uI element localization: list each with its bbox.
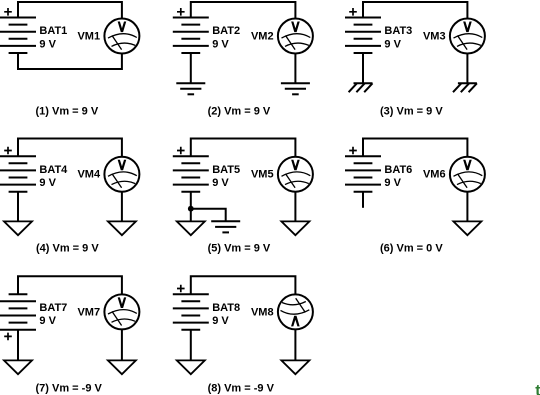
ground (earth) at BAT2 <box>176 83 205 94</box>
svg-text:(6) Vm = 0 V: (6) Vm = 0 V <box>380 242 443 254</box>
voltmeter VM2 <box>278 19 313 54</box>
svg-text:VM6: VM6 <box>423 169 446 181</box>
svg-text:BAT3: BAT3 <box>384 25 412 37</box>
ground (signal) at BAT5 <box>177 221 205 235</box>
battery BAT6 plus terminal <box>349 147 357 155</box>
svg-text:9 V: 9 V <box>39 38 56 50</box>
svg-text:BAT5: BAT5 <box>212 164 240 176</box>
battery BAT1 <box>0 18 36 54</box>
battery BAT2 plus terminal <box>177 8 185 16</box>
svg-text:9 V: 9 V <box>39 177 56 189</box>
svg-text:9 V: 9 V <box>212 315 229 327</box>
wire VM5 to ground <box>294 192 296 222</box>
wire VM7 to ground <box>121 329 123 360</box>
wire junction to earth ground branch <box>191 209 226 222</box>
wire VM8 to ground <box>294 329 296 360</box>
voltmeter VM3 <box>450 19 485 54</box>
svg-text:BAT2: BAT2 <box>212 25 240 37</box>
wire BAT5 to ground through junction <box>190 192 192 222</box>
svg-text:VM5: VM5 <box>251 169 274 181</box>
wire BAT7 to ground <box>17 330 19 361</box>
ground (chassis) at BAT3 <box>349 83 373 92</box>
voltmeter VM7 <box>104 294 139 329</box>
wire BAT3 to ground <box>362 53 364 83</box>
battery BAT7 <box>0 294 36 330</box>
svg-text:VM3: VM3 <box>423 30 446 42</box>
battery BAT5 plus terminal <box>177 147 185 155</box>
wire BAT6 floating stub <box>362 192 364 208</box>
svg-text:(3) Vm = 9 V: (3) Vm = 9 V <box>380 106 443 118</box>
voltmeter VM8 <box>278 294 313 329</box>
battery BAT6 <box>345 156 381 192</box>
svg-text:VM2: VM2 <box>251 30 274 42</box>
battery BAT5 <box>173 156 209 192</box>
svg-text:(8) Vm = -9 V: (8) Vm = -9 V <box>208 383 275 395</box>
svg-text:VM7: VM7 <box>77 306 100 318</box>
battery BAT4 <box>0 156 36 192</box>
ground (chassis) at VM3 <box>453 83 477 92</box>
ground (signal) at VM8 <box>281 360 309 374</box>
wire VM2 to ground <box>294 54 296 84</box>
wire top BAT1 to VM1 <box>18 2 122 19</box>
wire top BAT4 to VM4 <box>18 139 122 157</box>
ground (signal) at VM4 <box>108 221 136 235</box>
battery BAT7 plus terminal <box>4 333 12 341</box>
voltmeter VM6 <box>450 157 485 192</box>
svg-text:t: t <box>535 383 540 395</box>
svg-text:(5) Vm = 9 V: (5) Vm = 9 V <box>208 242 271 254</box>
wire VM6 to ground <box>466 192 468 222</box>
voltmeter VM1 <box>104 19 139 54</box>
wire VM4 to ground <box>121 192 123 222</box>
svg-text:(4) Vm = 9 V: (4) Vm = 9 V <box>36 242 99 254</box>
svg-text:9 V: 9 V <box>212 38 229 50</box>
battery BAT1 plus terminal <box>4 8 12 16</box>
ground (signal) at VM7 <box>108 360 136 374</box>
svg-text:9 V: 9 V <box>39 315 56 327</box>
svg-text:(1) Vm = 9 V: (1) Vm = 9 V <box>36 106 99 118</box>
wire top BAT7 to VM7 <box>18 276 122 294</box>
svg-text:VM4: VM4 <box>77 169 101 181</box>
wire BAT2 to ground <box>190 53 192 83</box>
junction node at BAT5 <box>188 206 194 212</box>
ground (earth) at VM2 <box>281 83 310 94</box>
ground (signal) at BAT8 <box>177 360 205 374</box>
wire BAT4 to ground <box>17 192 19 222</box>
svg-text:9 V: 9 V <box>384 38 401 50</box>
wire top BAT8 to VM8 <box>191 276 296 294</box>
svg-text:9 V: 9 V <box>212 177 229 189</box>
svg-text:BAT4: BAT4 <box>39 164 68 176</box>
battery BAT3 plus terminal <box>349 8 357 16</box>
voltmeter VM5 <box>278 157 313 192</box>
svg-text:VM1: VM1 <box>77 30 100 42</box>
ground (earth) at BAT5 branch <box>211 221 240 232</box>
wire top BAT3 to VM3 <box>363 2 467 19</box>
svg-text:VM8: VM8 <box>251 306 274 318</box>
svg-text:BAT6: BAT6 <box>384 164 412 176</box>
wire top BAT5 to VM5 <box>191 139 296 157</box>
svg-text:BAT8: BAT8 <box>212 302 240 314</box>
ground (signal) at VM6 <box>453 221 481 235</box>
ground (signal) at BAT4 <box>4 221 32 235</box>
battery BAT8 <box>173 294 209 330</box>
ground (signal) at VM5 <box>281 221 309 235</box>
battery BAT8 plus terminal <box>177 285 185 293</box>
svg-text:BAT1: BAT1 <box>39 25 67 37</box>
svg-text:9 V: 9 V <box>384 177 401 189</box>
wire top BAT2 to VM2 <box>191 2 296 19</box>
svg-text:(2) Vm = 9 V: (2) Vm = 9 V <box>208 106 271 118</box>
battery BAT3 <box>345 18 381 54</box>
wire bottom VM1 to BAT1 <box>18 53 122 69</box>
wire BAT8 to ground <box>190 330 192 361</box>
battery BAT2 <box>173 18 209 54</box>
svg-text:(7) Vm = -9 V: (7) Vm = -9 V <box>36 383 103 395</box>
battery BAT4 plus terminal <box>4 147 12 155</box>
ground (signal) at BAT7 <box>4 360 32 374</box>
wire VM3 to ground <box>466 54 468 84</box>
wire top BAT6 to VM6 <box>363 139 467 157</box>
svg-text:BAT7: BAT7 <box>39 302 67 314</box>
voltmeter VM4 <box>104 157 139 192</box>
